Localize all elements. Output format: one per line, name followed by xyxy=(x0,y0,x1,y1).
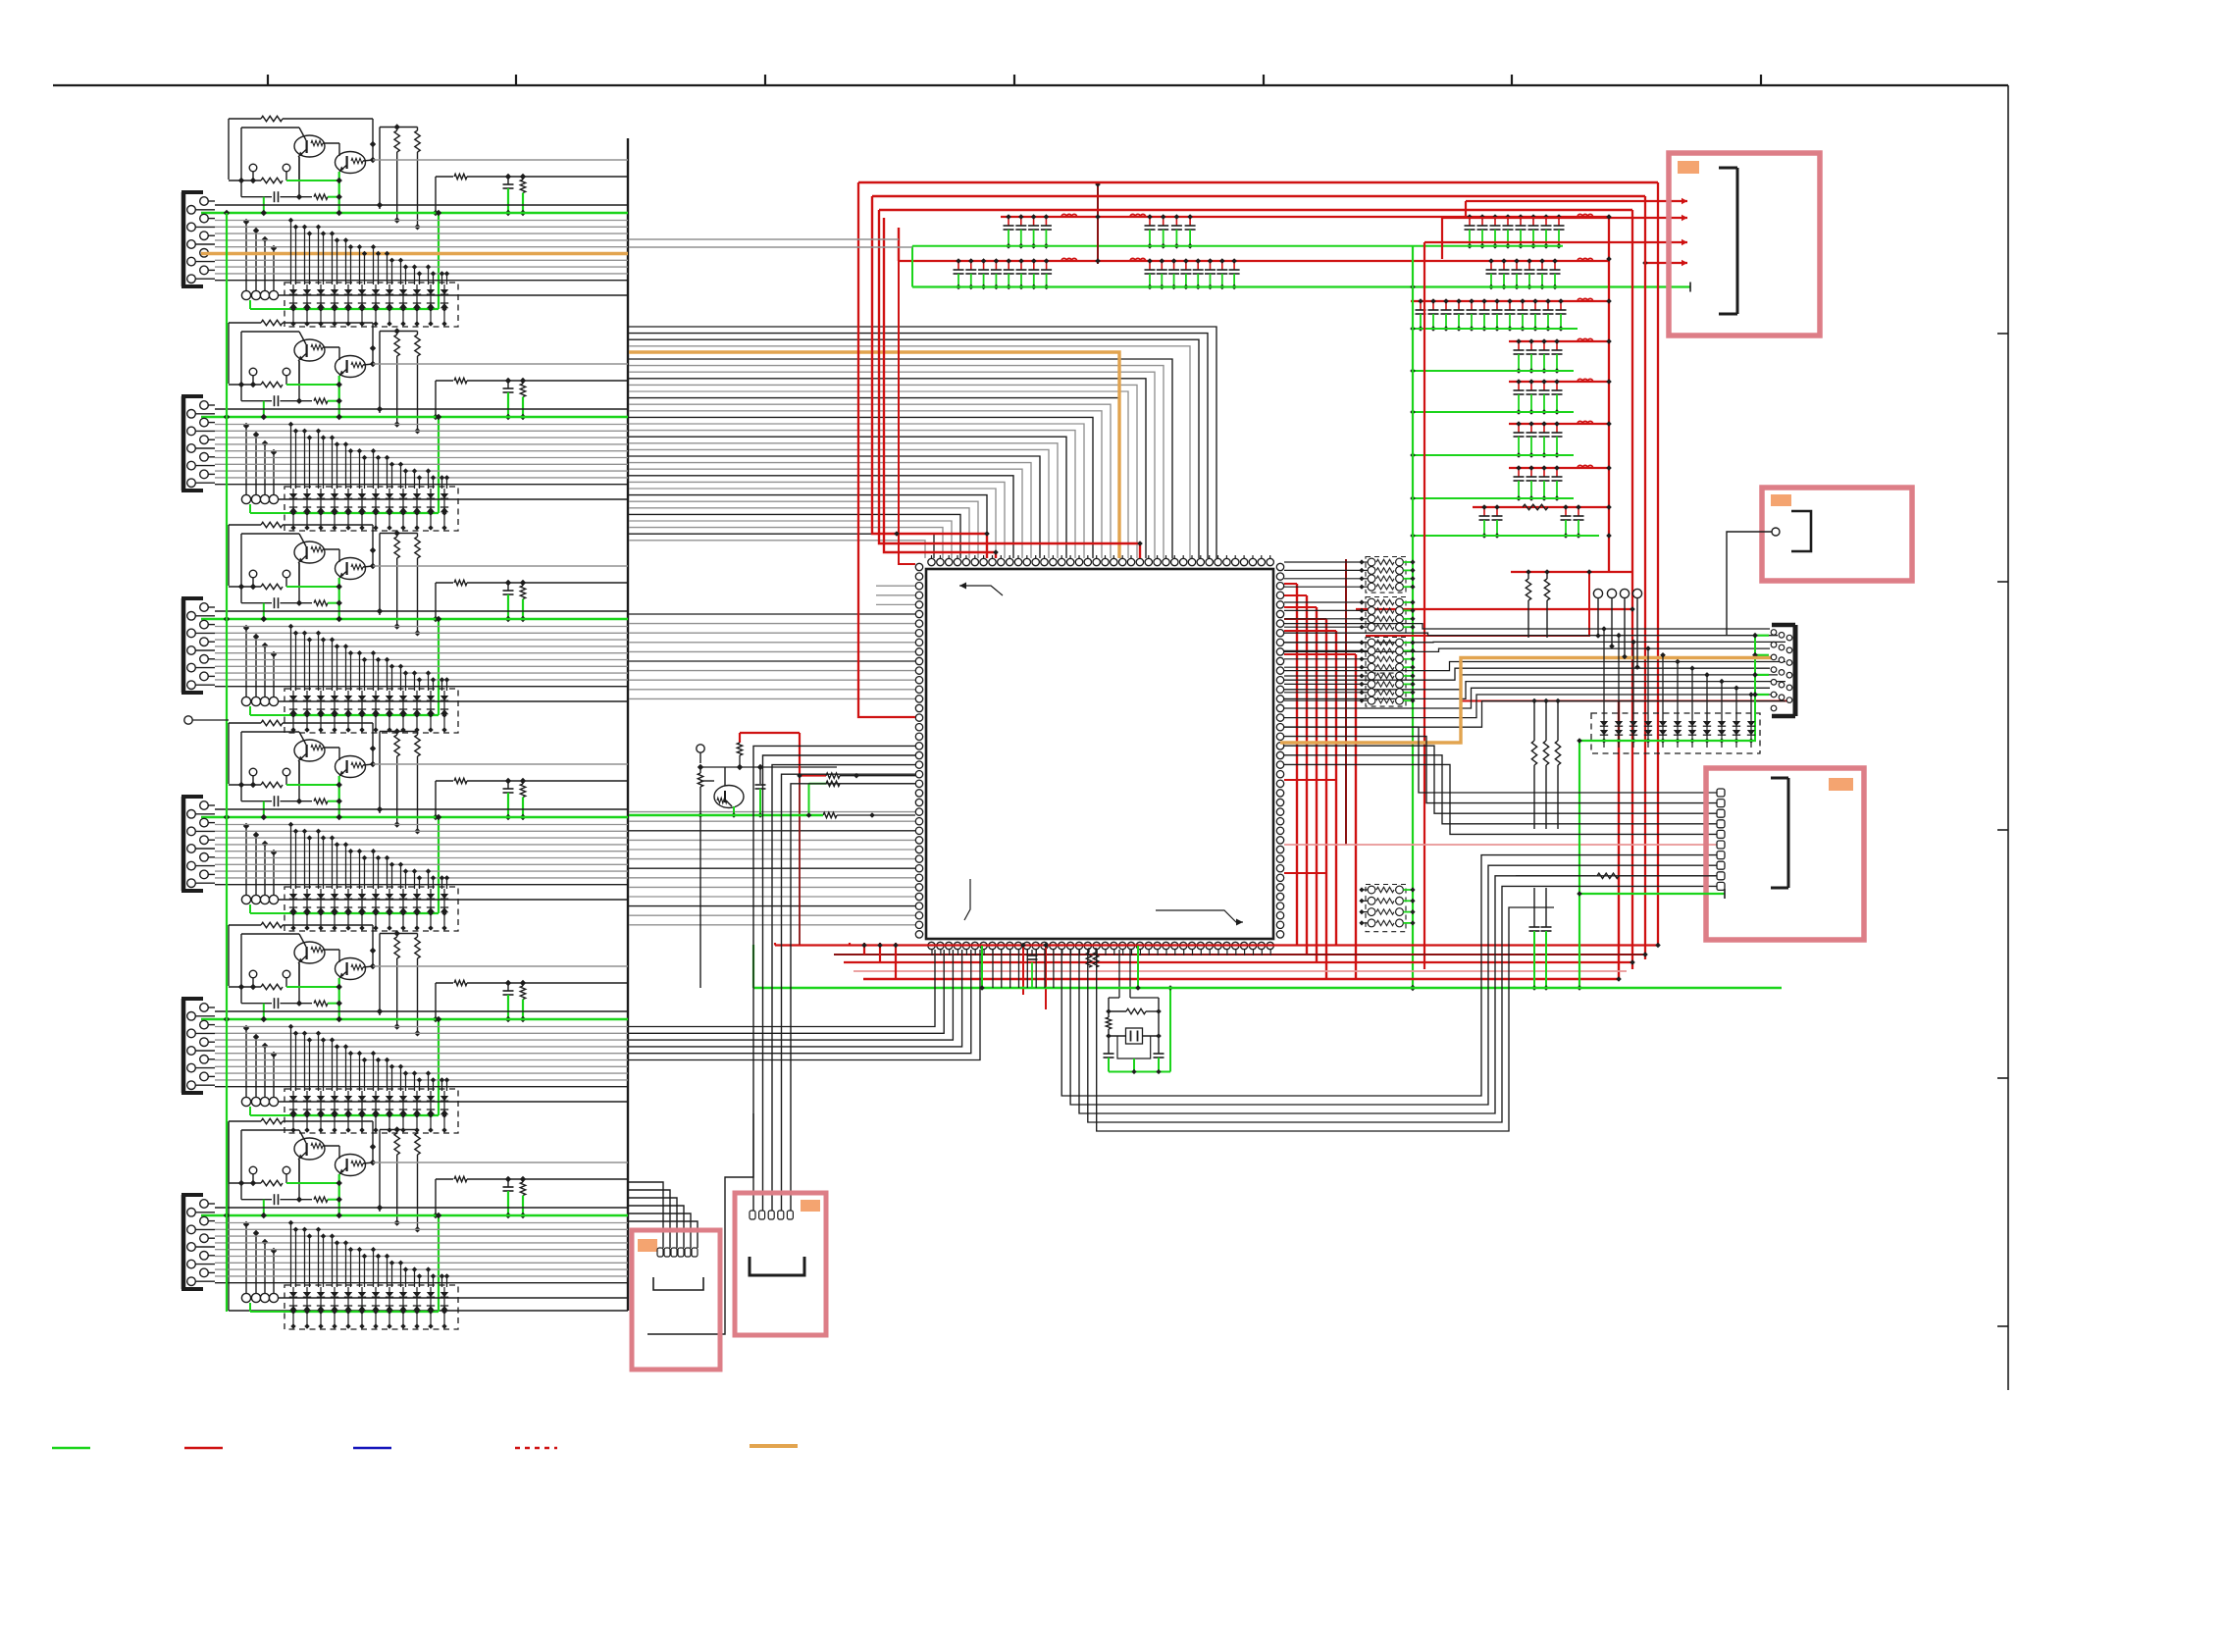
IC U1 top pins xyxy=(928,555,1274,566)
key block 1 driver circuit xyxy=(229,116,628,230)
bus wires from IC right pins to right connector xyxy=(1284,624,1785,728)
right diode array xyxy=(1591,713,1760,753)
key block 1 RC filter ground wires xyxy=(505,188,526,216)
bus wires from block 5 up to IC bottom pins xyxy=(629,950,980,1060)
IC U1 left pins xyxy=(915,563,922,938)
key block 2 key matrix column wires xyxy=(288,422,449,489)
key block 6 driver circuit xyxy=(229,1118,628,1232)
L-shaped wire near bottom connectors xyxy=(647,1113,753,1334)
IC U1 pin 1 marker xyxy=(959,583,1003,596)
key block 3 key matrix column wires xyxy=(288,624,449,691)
red wires into IC top pins xyxy=(894,531,1143,558)
key block 1 key matrix column wires xyxy=(288,218,449,284)
IC U1 lower-left marker xyxy=(964,879,970,920)
key block 2 RC filter xyxy=(433,378,628,420)
bus wires from IC bottom pins to connector pads via lower run xyxy=(1061,855,1717,1131)
key block 2 driver circuit xyxy=(229,320,628,434)
top-right connector block xyxy=(1669,153,1820,336)
key block 1 row/column bus wires xyxy=(215,205,628,295)
key block 1 connector xyxy=(181,192,279,300)
key block 4 driver circuit xyxy=(229,720,628,834)
bottom-right connector ground stub xyxy=(1577,889,1725,899)
ground rail of capacitor row A xyxy=(912,246,1563,287)
bottom-middle connector block xyxy=(735,1193,826,1335)
key block 1 common green wire xyxy=(201,172,628,309)
bus wires from block 3 to IC left pins xyxy=(629,614,915,698)
red supply wire top run 3 xyxy=(879,209,1632,212)
legend: red wire sample xyxy=(184,1447,223,1450)
legend: green wire sample xyxy=(52,1447,90,1450)
key block 4 key matrix column wires xyxy=(288,822,449,889)
reset circuit red feed xyxy=(737,733,826,945)
wires from IC left pins to middle bottom connector xyxy=(753,746,915,1211)
key block 3 driver circuit xyxy=(229,522,628,636)
key block 3 row/column bus wires xyxy=(215,611,628,701)
red collector vertical right of capacitor rows xyxy=(1606,214,1612,572)
key block 5 RC filter xyxy=(433,980,628,1022)
red supply vertical wires left of IC xyxy=(858,182,915,717)
key block 5 row/column bus wires xyxy=(215,1011,628,1102)
legend: orange wire sample xyxy=(750,1444,798,1448)
sheet border frame xyxy=(53,75,2008,1390)
pullup resistor pair right section xyxy=(1526,569,1550,638)
ground bus wire below IC xyxy=(753,945,1782,988)
red wire at right connector bottom xyxy=(1461,700,1786,702)
mid-right connector block xyxy=(1727,488,1912,636)
legend: blue wire sample xyxy=(353,1447,391,1450)
red supply wire top run 1 xyxy=(858,181,1658,184)
legend: dashed red wire sample xyxy=(515,1447,557,1450)
key block 1 diode array xyxy=(285,283,458,327)
orange wire from spine to IC top pin xyxy=(629,352,1119,558)
IC U1 bottom pins xyxy=(928,942,1274,949)
key block 2 RC filter ground wires xyxy=(505,392,526,420)
resistor network packs right of IC xyxy=(1284,557,1416,932)
reset circuit green wires xyxy=(731,789,763,818)
reset transistor circuit xyxy=(697,745,837,988)
supply wires from block 1 to top network xyxy=(629,239,912,247)
key block 4 connector xyxy=(181,797,279,904)
reset circuit resistor rows xyxy=(823,773,915,818)
key block 4 row/column bus wires xyxy=(215,809,628,900)
right diode array ground wire xyxy=(1579,740,1756,742)
capacitor pair to ground bus xyxy=(1529,888,1552,991)
pale red signal wire to bottom-right connector xyxy=(1284,844,1717,846)
resistor trio below right connector xyxy=(1531,698,1561,829)
test point above block 4 xyxy=(184,716,229,724)
long red verticals far right xyxy=(1619,182,1658,979)
green stubs from IC bottom to ground bus xyxy=(979,946,1141,991)
bus wires from IC right pins to bottom-right connector pads xyxy=(1284,727,1717,834)
red supply bus below IC xyxy=(775,943,1661,1009)
key block 4 RC filter xyxy=(433,778,628,820)
key block 5 RC filter ground wires xyxy=(505,995,526,1022)
key block 3 diode array xyxy=(285,689,458,733)
green stubs at right connector pins xyxy=(1752,633,1769,741)
key block 6 common green wire xyxy=(201,1174,628,1312)
black stubs from IC bottom pins xyxy=(932,950,1270,988)
bottom-right connector block xyxy=(1706,768,1864,940)
bus wires from block 4 to IC left pins xyxy=(629,812,915,925)
key block 6 connector xyxy=(181,1195,279,1303)
key block 5 driver circuit xyxy=(229,922,628,1036)
key block 1 RC filter xyxy=(433,174,628,216)
red wire row to resistor pair xyxy=(1511,571,1632,573)
red supply wire top run 2 xyxy=(872,195,1645,198)
block 4 green bus extension xyxy=(629,784,826,818)
capacitor below IC bottom xyxy=(1027,950,1038,988)
key block 4 common green wire xyxy=(201,776,628,913)
key block 2 row/column bus wires xyxy=(215,409,628,499)
key block 5 diode array xyxy=(285,1089,458,1133)
IC U1 160-pin QFP body xyxy=(926,569,1273,939)
key block 5 common green wire xyxy=(201,978,628,1115)
key block 2 common green wire xyxy=(201,376,628,513)
key block 2 connector xyxy=(181,396,279,504)
key block 3 common green wire xyxy=(201,578,628,715)
ground rail of capacitor row B into top-right connector xyxy=(912,283,1690,292)
red verticals right of IC xyxy=(1284,559,1635,979)
bottom-right connector resistor xyxy=(1516,873,1717,878)
column wires into right diode array xyxy=(1601,626,1754,719)
key block 5 key matrix column wires xyxy=(288,1024,449,1091)
key block 4 RC filter ground wires xyxy=(505,793,526,820)
key block 6 RC filter ground wires xyxy=(505,1191,526,1218)
orange wire to right connector xyxy=(1280,658,1772,744)
key block 6 key matrix column wires xyxy=(288,1220,449,1287)
vertical bus spine xyxy=(627,138,629,1311)
key block 6 RC filter xyxy=(433,1176,628,1218)
key block 6 row/column bus wires xyxy=(215,1208,628,1298)
bus wires from spine to IC top pins xyxy=(629,327,1216,558)
key block 6 diode array xyxy=(285,1285,458,1329)
test point circles right section xyxy=(1593,589,1641,670)
right connector xyxy=(1771,625,1795,716)
red wires to top-right connector arrows xyxy=(1424,198,1687,969)
orange wire from block 1 connector xyxy=(201,252,628,255)
dark red junction post xyxy=(1095,181,1101,264)
decoupling capacitor array rails xyxy=(899,214,1609,539)
key block 3 RC filter xyxy=(433,580,628,622)
green drop from diode array to ground bus xyxy=(1577,738,1582,991)
key block 2 diode array xyxy=(285,487,458,531)
key block 4 diode array xyxy=(285,887,458,931)
green ground collector wire right side xyxy=(1410,246,1416,991)
crystal oscillator circuit xyxy=(1104,950,1164,1058)
bottom-left connector block xyxy=(632,1230,720,1369)
left section bottom boundary wire xyxy=(229,1122,628,1311)
IC U1 right pins xyxy=(1276,563,1283,938)
crystal circuit ground wires xyxy=(1109,985,1173,1074)
IC U1 lower-right marker xyxy=(1156,910,1243,926)
wires from spine to bottom-left connector xyxy=(629,1182,698,1248)
key block 3 RC filter ground wires xyxy=(505,594,526,622)
short stubs into IC upper-left pins xyxy=(876,586,915,604)
key block 3 connector xyxy=(181,598,279,706)
resistor pair below IC bottom xyxy=(1086,948,1098,967)
key block 5 connector xyxy=(181,999,279,1107)
long green column wire joining blocks xyxy=(226,213,228,1312)
